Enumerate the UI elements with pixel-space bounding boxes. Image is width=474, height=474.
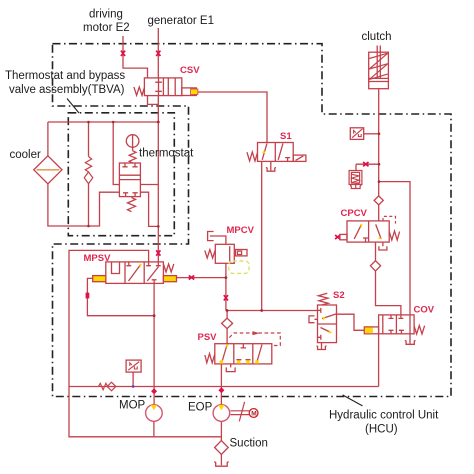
svg-text:valve assembly(TBVA): valve assembly(TBVA): [9, 84, 125, 96]
svg-text:(HCU): (HCU): [365, 424, 398, 436]
svg-text:COV: COV: [414, 305, 435, 316]
svg-text:MPCV: MPCV: [227, 225, 255, 236]
svg-text:cooler: cooler: [10, 149, 41, 161]
svg-text:S2: S2: [333, 290, 345, 301]
svg-text:PSV: PSV: [198, 332, 218, 343]
svg-text:thermostat: thermostat: [139, 148, 194, 160]
svg-text:S1: S1: [280, 131, 292, 142]
svg-text:CSV: CSV: [180, 65, 200, 76]
svg-text:MOP: MOP: [119, 400, 146, 412]
svg-text:driving: driving: [89, 9, 123, 21]
svg-text:generator E1: generator E1: [148, 15, 215, 27]
svg-text:EOP: EOP: [188, 402, 213, 414]
svg-text:Thermostat and bypass: Thermostat and bypass: [5, 70, 125, 82]
svg-text:clutch: clutch: [362, 31, 392, 43]
svg-text:Suction: Suction: [230, 438, 268, 450]
svg-text:Hydraulic control Unit: Hydraulic control Unit: [329, 410, 439, 422]
svg-text:CPCV: CPCV: [341, 208, 368, 219]
svg-text:M: M: [251, 411, 256, 418]
svg-text:MPSV: MPSV: [84, 253, 112, 264]
svg-text:motor E2: motor E2: [83, 22, 130, 34]
